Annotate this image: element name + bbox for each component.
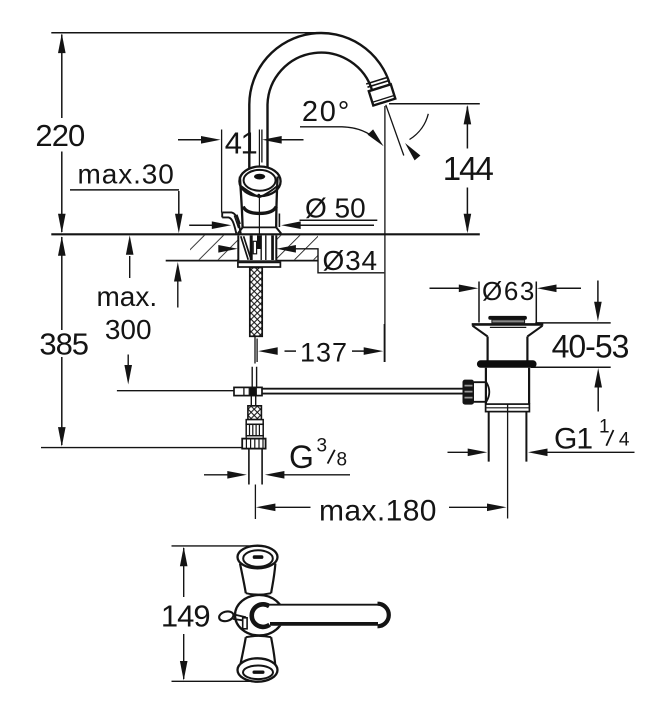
svg-text:144: 144 (443, 150, 494, 187)
svg-text:220: 220 (35, 118, 85, 153)
svg-text:Ø34: Ø34 (323, 245, 378, 276)
svg-text:149: 149 (161, 599, 210, 634)
svg-text:max.: max. (96, 281, 157, 312)
svg-text:8: 8 (337, 449, 348, 470)
svg-text:Ø 50: Ø 50 (305, 193, 366, 224)
svg-text:20°: 20° (302, 96, 351, 128)
svg-text:max.180: max.180 (319, 495, 437, 528)
svg-text:max.30: max.30 (78, 159, 175, 190)
svg-text:G: G (289, 439, 314, 475)
svg-text:41: 41 (225, 126, 257, 161)
svg-text:Ø63: Ø63 (482, 276, 536, 306)
svg-text:G1: G1 (554, 423, 592, 456)
svg-text:385: 385 (39, 327, 88, 362)
svg-text:3: 3 (317, 435, 328, 456)
svg-text:1: 1 (599, 416, 610, 437)
svg-text:40-53: 40-53 (552, 329, 629, 365)
svg-text:137: 137 (300, 338, 348, 368)
svg-text:300: 300 (105, 314, 152, 345)
svg-text:4: 4 (619, 430, 630, 451)
